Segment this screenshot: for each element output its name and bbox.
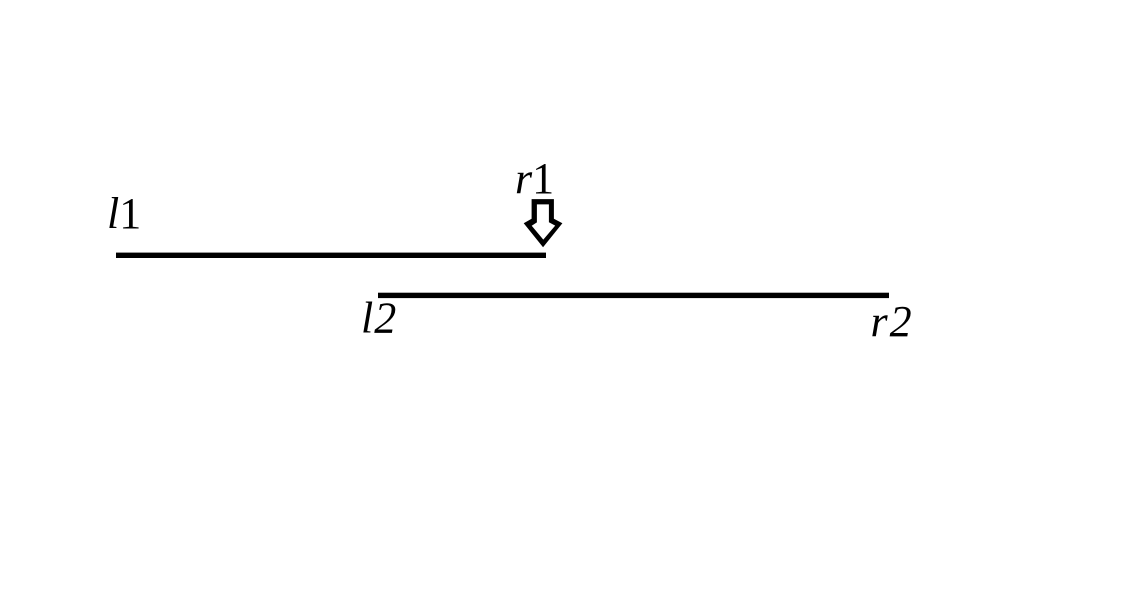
svg-text:l2: l2 xyxy=(361,293,396,342)
svg-text:r2: r2 xyxy=(871,297,912,346)
segment line l1-r1 xyxy=(116,253,546,258)
svg-text:l1: l1 xyxy=(107,189,141,238)
hollow down arrow pointing at r1 xyxy=(524,199,563,247)
svg-text:r1: r1 xyxy=(515,154,554,203)
segment line l2-r2 xyxy=(378,293,889,298)
